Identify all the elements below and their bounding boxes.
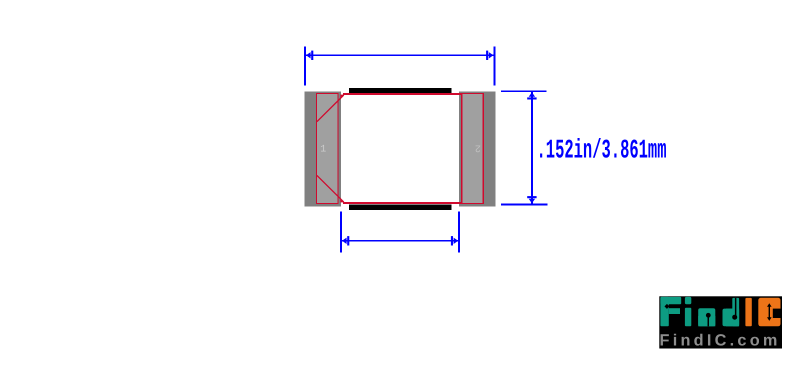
svg-text:.152in/3.861mm: .152in/3.861mm xyxy=(537,137,667,167)
svg-text:FindIC.com: FindIC.com xyxy=(660,331,781,349)
svg-text:2: 2 xyxy=(475,142,481,153)
svg-text:1: 1 xyxy=(320,144,326,155)
